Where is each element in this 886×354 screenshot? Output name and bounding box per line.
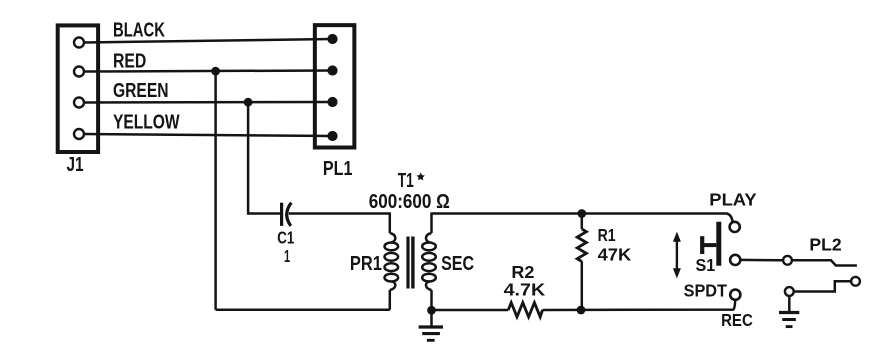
svg-text:S1: S1 [696, 255, 716, 275]
switch S1 PLAY contact [730, 222, 740, 232]
transformer T1 primary winding PR1 [385, 212, 399, 309]
svg-text:YELLOW: YELLOW [113, 112, 180, 134]
svg-text:PR1: PR1 [350, 253, 382, 275]
transformer T1 core [408, 237, 413, 289]
wire RED junction down to bottom rail [214, 71, 217, 310]
ground (transformer secondary) [419, 310, 443, 340]
wire GREEN junction down to C1 [248, 102, 281, 213]
svg-text:R1: R1 [598, 225, 616, 245]
svg-text:REC: REC [721, 310, 753, 330]
svg-text:PL1: PL1 [323, 158, 353, 180]
node GREEN junction [244, 98, 253, 107]
svg-text:600:600 Ω: 600:600 Ω [369, 191, 450, 213]
svg-text:PL2: PL2 [809, 234, 841, 254]
connector PL1 [315, 25, 355, 147]
svg-text:1: 1 [284, 246, 290, 266]
wire C1 to transformer primary [289, 212, 390, 215]
svg-text:SEC: SEC [441, 253, 474, 275]
svg-text:4.7K: 4.7K [504, 279, 546, 299]
resistor R1 [577, 214, 586, 311]
switch S1 common contact [730, 255, 740, 265]
node secondary bottom junction [427, 306, 436, 315]
transformer T1 secondary winding SEC [422, 212, 436, 310]
svg-text:T1: T1 [398, 170, 414, 192]
capacitor C1 [282, 203, 292, 226]
wire bottom rail R2 to REC [543, 300, 736, 310]
wire bottom rail secondary to R2 [432, 309, 509, 312]
svg-text:BLACK: BLACK [113, 19, 165, 41]
connector J1 [58, 25, 98, 152]
plug PL2 tip contact [792, 260, 857, 265]
node bottom rail R1 junction [577, 306, 586, 315]
switch S1 lever [702, 222, 719, 266]
wire YELLOW [84, 134, 333, 136]
svg-text:RED: RED [113, 51, 146, 73]
wire RED [84, 71, 333, 72]
resistor R2 [508, 303, 542, 317]
switch S1 arrow [673, 232, 681, 279]
plug PL2 sleeve contact [785, 277, 860, 296]
label T1* [398, 170, 425, 192]
wire primary bottom rail [216, 308, 390, 311]
plug PL2 tip terminal [783, 256, 792, 265]
svg-text:PLAY: PLAY [709, 190, 757, 210]
wire secondary top rail to switch [432, 214, 733, 223]
ground (PL2 sleeve) [779, 296, 799, 327]
svg-text:J1: J1 [67, 154, 84, 176]
wire BLACK [84, 39, 333, 43]
svg-text:SPDT: SPDT [684, 281, 728, 301]
node top rail R1 junction [577, 209, 586, 218]
svg-text:47K: 47K [598, 244, 632, 264]
wire GREEN [84, 101, 333, 104]
svg-text:GREEN: GREEN [113, 80, 169, 102]
svg-text:C1: C1 [277, 228, 294, 248]
wire S1 common to PL2 tip [740, 259, 783, 262]
switch S1 REC contact [730, 290, 740, 300]
node RED junction [211, 67, 220, 76]
